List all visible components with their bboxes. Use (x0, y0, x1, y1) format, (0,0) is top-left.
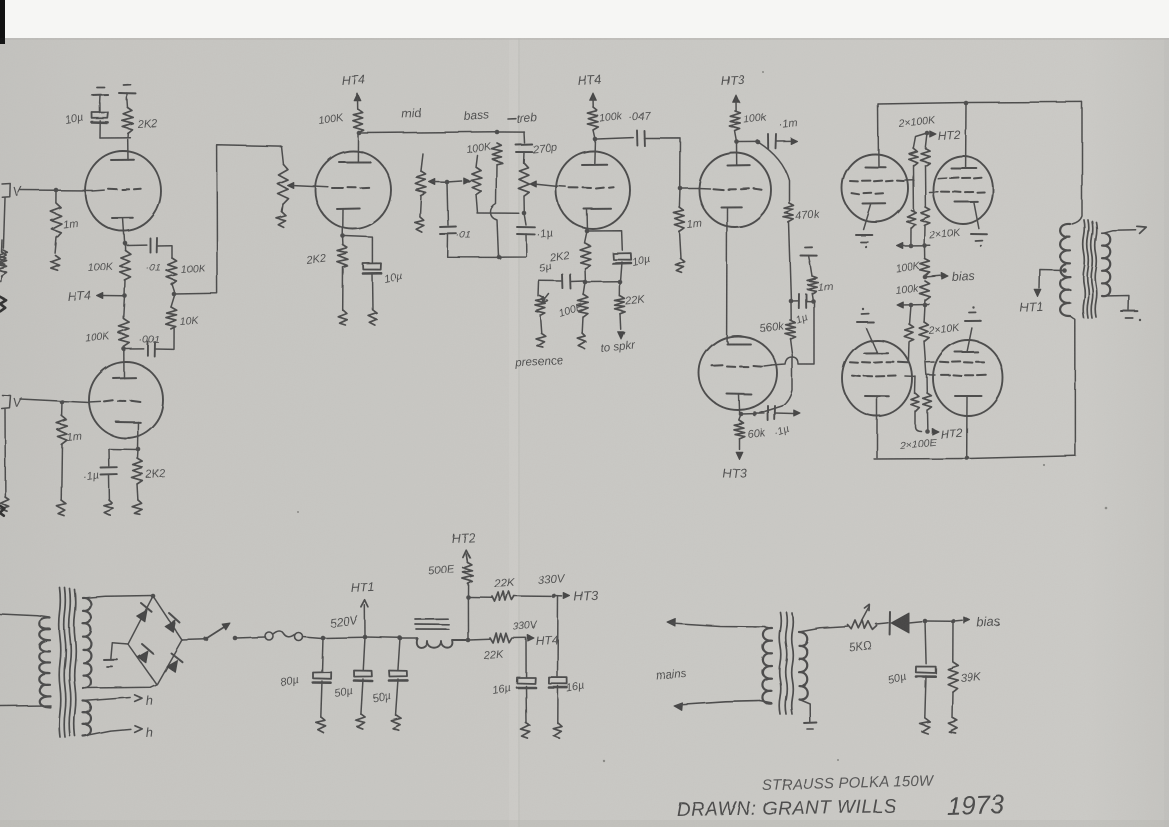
wire (876, 623, 888, 624)
resistor 1m R13 (673, 188, 702, 258)
node (60, 400, 65, 405)
ground (965, 307, 981, 321)
bridge rectifier (128, 596, 182, 684)
wire (20, 399, 89, 403)
ground (92, 87, 108, 103)
capacitor .01 C8 (440, 183, 499, 257)
capacitor 16u C18 (549, 678, 586, 724)
node (735, 140, 740, 145)
HT3 feed arrow (722, 452, 746, 481)
potentiometer 5K2 VR6 (848, 605, 877, 654)
title year (946, 789, 1005, 821)
grid bus 2 (897, 302, 930, 308)
node (445, 180, 450, 185)
resistor 10K R26a (904, 305, 913, 362)
node (321, 636, 326, 641)
node (122, 347, 127, 352)
node (811, 299, 816, 304)
chassis ground (368, 310, 377, 325)
wire (741, 412, 765, 415)
ground (971, 234, 987, 247)
heater wire h2 (83, 725, 153, 740)
capacitor 50u C17 (371, 638, 407, 715)
V7 cathode (863, 204, 886, 230)
node (466, 638, 471, 643)
wire (477, 212, 519, 214)
node (398, 636, 403, 641)
node (151, 594, 156, 599)
node (54, 188, 59, 193)
node (678, 186, 683, 191)
node (357, 131, 362, 136)
VR3 wiper arrow (464, 178, 470, 184)
node (789, 299, 794, 304)
wire (83, 684, 157, 688)
wire (924, 165, 926, 207)
resistor 2K2 R2 (122, 100, 157, 138)
chassis ground (578, 333, 586, 349)
bias feed arrow (954, 614, 1001, 630)
jack J2 sleeve wire (4, 409, 6, 497)
mains wire 1 (667, 619, 765, 627)
node (923, 619, 928, 624)
resistor 22K R29 (492, 577, 551, 602)
resistor 39K R31 (948, 621, 983, 718)
node (583, 280, 588, 285)
V10 grid2 (927, 374, 986, 377)
V7 grid2 (852, 193, 884, 195)
capacitor .1u C14 (768, 406, 793, 440)
HT2 feed arrow (930, 128, 961, 143)
switch S1 (207, 623, 237, 640)
resistor 100K R24 (895, 246, 930, 276)
wire (20, 189, 92, 192)
resistor 470K R18 (784, 203, 821, 299)
T1 secondary ground (1102, 296, 1141, 322)
V5 grid (698, 188, 762, 190)
output feed arrow (794, 410, 800, 416)
chassis ground (920, 718, 930, 734)
triode V4 (556, 151, 630, 229)
chassis ground (521, 723, 530, 739)
V9 cathode (864, 328, 888, 353)
wire (0, 705, 51, 708)
potentiometer presence VR5 (514, 282, 563, 370)
label 2x10K (927, 322, 961, 337)
VR2 wiper (429, 179, 447, 185)
V8 grid2 (929, 191, 984, 194)
label 330V (537, 573, 566, 587)
potentiometer treble VR4 (518, 163, 529, 214)
wire (926, 620, 950, 622)
capacitor .047 C9 (597, 110, 680, 187)
resistor 2K2 R10 (305, 236, 349, 310)
potentiometer bass VR3 (471, 155, 482, 213)
page bottom edge shadow (0, 820, 1169, 827)
wire (681, 187, 699, 189)
capacitor 50u C16 (333, 637, 372, 714)
chassis ground (536, 333, 546, 348)
capacitor .1u C4 (83, 449, 118, 500)
wire with hop (491, 165, 499, 257)
diode D2 (165, 613, 180, 632)
chassis ground (948, 718, 957, 733)
fuse F1 (265, 631, 303, 641)
chassis ground (132, 500, 142, 514)
resistor 560K R20 (759, 301, 795, 357)
resistor 10K R23b (920, 207, 930, 246)
jack J1 sleeve wire (3, 198, 5, 248)
node (123, 241, 128, 246)
potentiometer volume VR1 (277, 146, 289, 227)
node (964, 101, 969, 106)
label 2x100E (898, 436, 938, 452)
capacitor .1u C7 (500, 213, 553, 257)
resistor 100K R22a (908, 133, 927, 166)
V1 plate (111, 140, 134, 161)
resistor 22K R30 (469, 633, 526, 662)
scanner white strip (0, 0, 1169, 38)
wire (323, 636, 364, 639)
HT2 supply arrow (451, 531, 475, 562)
node (495, 130, 500, 135)
choke L1 (415, 619, 467, 648)
V2 grid (89, 400, 140, 402)
chassis ground (356, 714, 365, 729)
V3 plate (339, 134, 370, 162)
ground (801, 248, 817, 262)
wire (236, 637, 266, 638)
resistor 100K R12 (587, 107, 623, 139)
V9 plate (865, 396, 889, 458)
wire top rail (878, 102, 1082, 104)
label bass (463, 107, 489, 123)
capacitor 10u C10 (613, 253, 652, 282)
node HT2 tap (925, 131, 930, 136)
wire grid hop (771, 301, 814, 365)
heater wire h1 (83, 693, 153, 708)
scan mark (0, 506, 5, 516)
node (756, 140, 761, 145)
speaker output wire (1102, 226, 1146, 233)
V4 grid (556, 186, 614, 189)
label 2x10K (928, 227, 962, 242)
resistor 100E R15 (557, 282, 588, 333)
to spkr feed (600, 332, 637, 355)
triode V3 (315, 151, 391, 229)
T1 secondary (1102, 233, 1110, 296)
wire (174, 145, 282, 294)
paper specks (297, 71, 1107, 762)
wire (345, 236, 372, 262)
ground (856, 235, 872, 248)
ground (119, 85, 136, 101)
wire (447, 181, 462, 182)
grid bus 1 (897, 243, 930, 249)
node (585, 229, 590, 234)
chassis ground (104, 500, 114, 516)
HT1 feed arrow (1019, 290, 1043, 315)
diode D4 (167, 653, 182, 672)
capacitor .1u C13 (791, 294, 813, 328)
V6 grid top (727, 341, 750, 344)
PT HT secondary (83, 598, 91, 688)
resistor 100K R11 slope (466, 141, 503, 165)
V9 grid1 (850, 362, 908, 363)
chassis ground (675, 258, 684, 272)
V9 grid2 (852, 376, 915, 377)
V3 cathode (337, 209, 360, 237)
capacitor .001 C3 (124, 334, 174, 357)
triode V5 (699, 153, 771, 227)
resistor 10K R23a (907, 210, 916, 246)
ground (104, 643, 128, 667)
wire (182, 638, 205, 641)
T1 core (1083, 220, 1097, 318)
node (739, 412, 758, 417)
node HT4 feed (67, 289, 127, 304)
label 2x100K (897, 114, 937, 130)
wire (877, 104, 880, 167)
capacitor 10u C1 (64, 103, 108, 138)
wire (758, 142, 789, 203)
node (951, 619, 956, 624)
pentode V9 (842, 340, 912, 416)
HT1 supply arrow (350, 580, 374, 637)
wire (469, 596, 492, 598)
resistor 10K R6 (166, 296, 200, 350)
chassis ground (56, 500, 66, 515)
label 520V (329, 613, 359, 630)
input jack J2 (2, 394, 23, 410)
V1 cathode (112, 218, 133, 244)
capacitor .1m C12 (768, 117, 798, 148)
bias feed (925, 269, 975, 284)
capacitor 16u C19 (491, 638, 535, 723)
diode D5 (890, 612, 922, 635)
V6 dashes (712, 365, 771, 367)
node (923, 275, 928, 280)
wire (912, 165, 914, 211)
pentode V7 (842, 154, 908, 222)
wire (585, 281, 620, 283)
capacitor 10u C5 (363, 263, 404, 310)
HT3 supply arrow (720, 73, 744, 111)
node (618, 280, 623, 285)
wire plate bus (360, 132, 497, 133)
VR1 wiper (287, 182, 313, 188)
resistor 100K R9 (318, 109, 364, 133)
resistor 2K2 R8 (132, 449, 166, 500)
input jack J1 (2, 183, 23, 199)
node (172, 292, 177, 297)
chassis ground (0, 250, 7, 265)
V8 grid1 (938, 177, 982, 180)
output transformer T1 primary (1060, 224, 1075, 456)
chassis ground (391, 715, 401, 730)
bias transformer primary (760, 627, 772, 704)
label treb (508, 111, 538, 126)
resistor 100E R27b (923, 375, 932, 431)
resistor 500E R28 (428, 554, 473, 641)
resistor 1m R1 (50, 190, 78, 253)
V10 plate (955, 396, 982, 458)
label 330V (512, 619, 538, 633)
wire (739, 141, 758, 143)
V10 cathode (955, 328, 978, 352)
output feed arrow (791, 138, 797, 144)
capacitor 80u C15 (279, 638, 331, 717)
V7 plate (865, 166, 886, 168)
PT heater winding (83, 701, 91, 736)
node (204, 637, 209, 642)
wire (100, 137, 130, 139)
V4 plate (582, 139, 607, 165)
HT3 feed arrow (554, 588, 599, 604)
wire (109, 448, 138, 451)
PT core (59, 588, 76, 737)
resistor 100K R4 (167, 246, 207, 292)
wire plate bus right (497, 131, 524, 133)
resistor 1m R19 (807, 262, 833, 301)
resistor 22K R16 (615, 282, 646, 329)
title line 1 (762, 772, 935, 794)
V3 grid (313, 186, 369, 188)
V2 plate (113, 349, 136, 378)
HT4 supply arrow (577, 73, 601, 107)
V5 cathode (721, 207, 741, 341)
BT secondary ground (799, 699, 816, 729)
wire to V6 plate node (760, 357, 792, 413)
node (363, 635, 368, 640)
pentode V8 (933, 156, 993, 224)
triode V6 (699, 336, 777, 410)
HT4 feed arrow (528, 633, 559, 648)
label mid (401, 106, 422, 121)
capacitor 50u C20 (887, 621, 936, 718)
triode V1 (85, 151, 161, 231)
node (593, 137, 598, 142)
resistor 100K R22b (920, 133, 930, 165)
resistor 100K R25 (895, 281, 930, 305)
VR5 wiper (542, 294, 549, 303)
chassis ground (51, 255, 60, 270)
T1 center tap (1040, 268, 1067, 289)
resistor 100K R3 (87, 243, 130, 296)
chassis ground (338, 310, 347, 325)
chassis ground (553, 723, 562, 738)
diode D1 (137, 603, 152, 622)
chassis ground (316, 717, 326, 733)
VR4 wiper (530, 181, 556, 187)
resistor 1m R7 (57, 402, 83, 500)
BT core (779, 612, 793, 714)
triode V2 (89, 362, 163, 438)
mains transformer primary (0, 614, 50, 707)
V10 grid1 (927, 361, 984, 362)
wire (1072, 102, 1082, 224)
wire (303, 637, 322, 639)
BT secondary (799, 632, 807, 699)
node (552, 594, 557, 599)
potentiometer mid VR2 (415, 154, 427, 232)
node HT2 tap 2 (925, 429, 930, 434)
capacitor .01 C2 (127, 238, 172, 274)
resistor 10K R26b (919, 305, 929, 375)
HT2 feed arrow (932, 426, 963, 441)
V8 plate (951, 103, 976, 168)
wire (588, 231, 622, 250)
resistor 100K R17 (729, 111, 767, 142)
wire (400, 637, 417, 639)
capacitor 270p C6 (516, 132, 558, 163)
wire (799, 627, 848, 632)
V8 cathode (955, 202, 979, 229)
resistor 100E R27a (911, 376, 921, 431)
wire (557, 597, 560, 677)
V2 cathode (116, 422, 140, 449)
mains wire 2 (674, 701, 760, 711)
V1 grid (92, 189, 141, 191)
label mains (655, 668, 687, 682)
pentode V10 (933, 340, 1003, 416)
V4 cathode (584, 209, 611, 231)
resistor 100K R5 (84, 296, 129, 349)
node (522, 211, 527, 216)
title drawn by (677, 796, 897, 821)
V7 grid1 (850, 180, 913, 182)
wire bottom rail (874, 456, 1075, 459)
resistor 2K2 R14 (548, 231, 591, 282)
HT4 supply arrow (341, 73, 365, 109)
scan mark (0, 297, 6, 311)
ground (857, 308, 873, 322)
node (497, 255, 502, 260)
wire (365, 636, 399, 639)
node (136, 447, 141, 452)
scanner black mark (0, 0, 5, 44)
chassis ground partial (0, 240, 7, 282)
node (965, 456, 970, 461)
capacitor 5u C11 (538, 260, 585, 288)
paper crease (509, 38, 518, 827)
wire (83, 596, 152, 599)
chassis ground (1, 497, 10, 512)
resistor 60K R21 (734, 414, 767, 449)
diode D3 (138, 644, 153, 663)
V6 plate (727, 394, 751, 413)
node (341, 234, 346, 239)
V5 plate (728, 142, 750, 166)
